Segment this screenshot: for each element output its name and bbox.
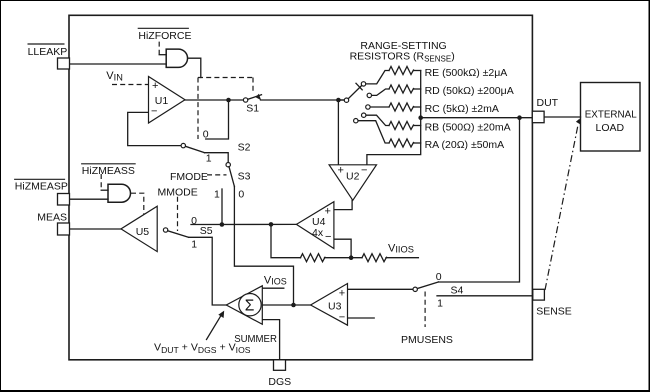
svg-text:1: 1 xyxy=(437,298,443,310)
svg-text:HiZMEASS: HiZMEASS xyxy=(82,165,135,177)
svg-text:4x: 4x xyxy=(312,227,324,239)
svg-text:U3: U3 xyxy=(328,301,342,313)
svg-text:RB (500Ω) ±20mA: RB (500Ω) ±20mA xyxy=(425,122,511,134)
svg-text:+: + xyxy=(152,80,158,92)
svg-text:1: 1 xyxy=(206,153,212,165)
svg-text:FMODE: FMODE xyxy=(170,171,208,183)
svg-text:0: 0 xyxy=(238,189,244,201)
svg-text:−: − xyxy=(325,231,331,243)
svg-text:0: 0 xyxy=(436,271,442,283)
svg-text:DGS: DGS xyxy=(268,376,291,388)
svg-text:+: + xyxy=(339,287,345,299)
svg-text:U5: U5 xyxy=(136,226,150,238)
svg-text:U2: U2 xyxy=(346,171,360,183)
svg-text:RE (500kΩ) ±2μA: RE (500kΩ) ±2μA xyxy=(425,67,508,79)
svg-text:0: 0 xyxy=(203,129,209,141)
svg-text:S3: S3 xyxy=(238,171,251,183)
svg-text:1: 1 xyxy=(214,189,220,201)
svg-text:RA (20Ω) ±50mA: RA (20Ω) ±50mA xyxy=(425,139,505,151)
svg-text:+: + xyxy=(325,206,331,218)
svg-text:VIN: VIN xyxy=(106,70,123,82)
svg-text:LLEAKP: LLEAKP xyxy=(28,46,68,58)
svg-text:−: − xyxy=(339,311,345,323)
svg-text:LOAD: LOAD xyxy=(596,122,625,134)
svg-text:VIIOS: VIIOS xyxy=(388,242,414,254)
svg-text:SENSE: SENSE xyxy=(536,306,572,318)
svg-text:S1: S1 xyxy=(246,103,259,115)
svg-text:−: − xyxy=(151,106,157,118)
svg-text:Σ: Σ xyxy=(245,298,255,315)
svg-text:VIOS: VIOS xyxy=(264,274,287,286)
svg-text:1: 1 xyxy=(191,239,197,251)
svg-text:RD (50kΩ) ±200μA: RD (50kΩ) ±200μA xyxy=(425,85,514,97)
svg-text:DUT: DUT xyxy=(537,97,559,109)
svg-text:HiZFORCE: HiZFORCE xyxy=(138,30,191,42)
svg-text:U1: U1 xyxy=(155,95,169,107)
svg-text:+: + xyxy=(338,164,344,176)
svg-text:HiZMEASP: HiZMEASP xyxy=(15,181,68,193)
svg-text:S5: S5 xyxy=(200,225,213,237)
svg-text:−: − xyxy=(361,165,367,177)
svg-text:S4: S4 xyxy=(451,284,464,296)
svg-text:SUMMER: SUMMER xyxy=(234,333,277,345)
svg-text:PMUSENS: PMUSENS xyxy=(401,334,453,346)
svg-text:EXTERNAL: EXTERNAL xyxy=(585,108,637,120)
svg-text:MMODE: MMODE xyxy=(158,186,198,198)
svg-text:RC (5kΩ) ±2mA: RC (5kΩ) ±2mA xyxy=(425,103,499,115)
svg-text:0: 0 xyxy=(191,215,197,227)
svg-text:S2: S2 xyxy=(238,141,251,153)
svg-text:MEAS: MEAS xyxy=(37,212,67,224)
